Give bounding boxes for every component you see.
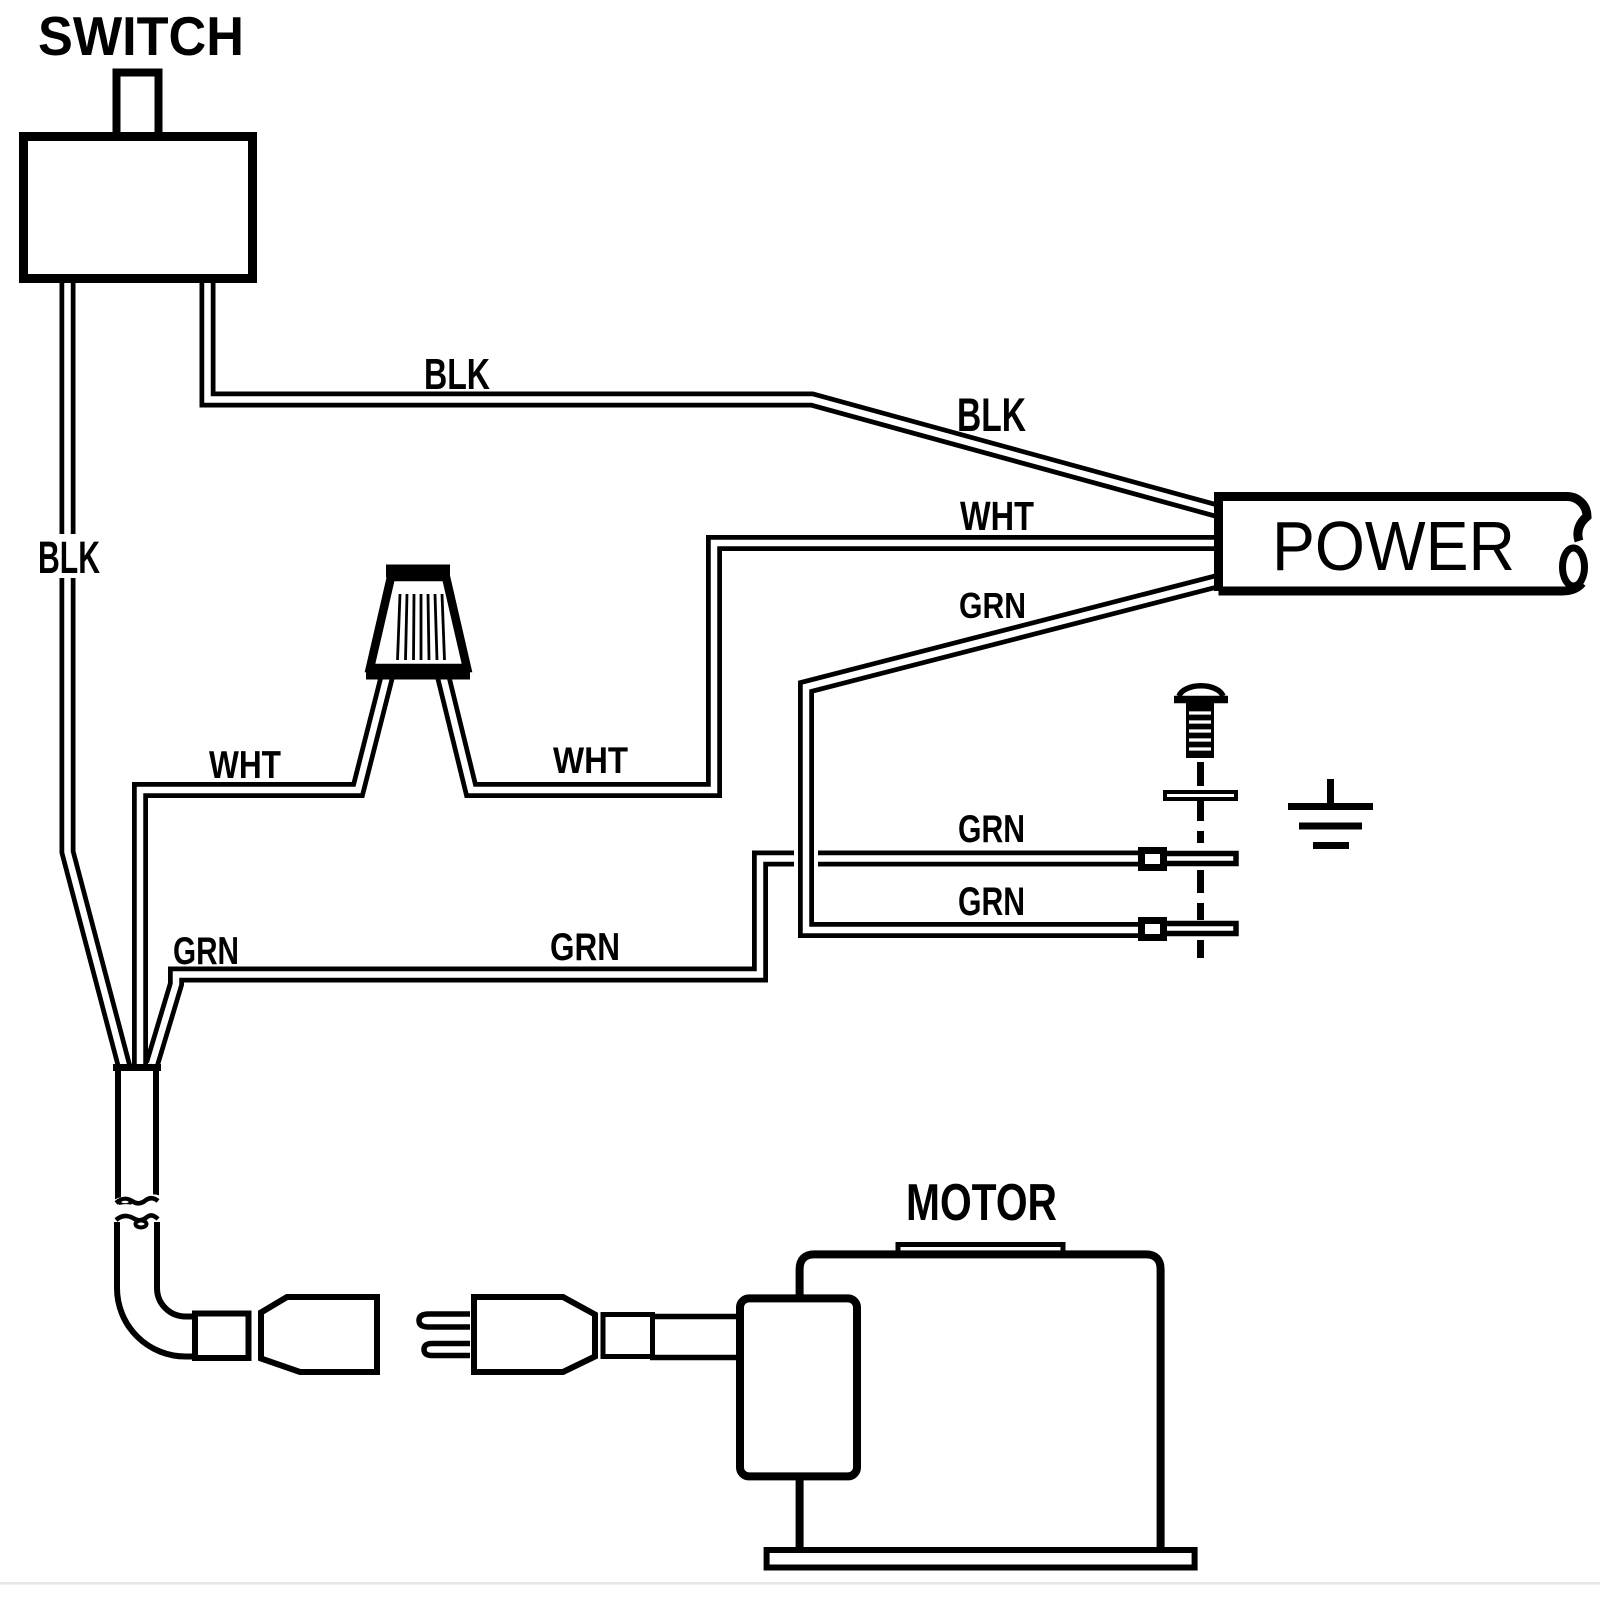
motor top tab: [898, 1245, 1063, 1256]
wire nut body: [366, 571, 470, 674]
female connector body: [261, 1297, 377, 1372]
svg-text:SWITCH: SWITCH: [38, 5, 244, 67]
wire WHT left: from bundle up to wire nut left leg: [140, 676, 387, 1066]
wire WHT right: from wire nut right leg to POWER: [443, 543, 1218, 790]
svg-text:MOTOR: MOTOR: [906, 1174, 1057, 1232]
switch body: [24, 137, 253, 279]
faint page edge line: [0, 1582, 1600, 1585]
plug prong lower: [424, 1344, 470, 1356]
motor junction box: [740, 1298, 857, 1476]
svg-text:WHT: WHT: [553, 740, 628, 781]
POWER cable: [1219, 497, 1588, 592]
cable sheath piece 1: [113, 1067, 161, 1209]
svg-text:POWER: POWER: [1272, 507, 1515, 585]
cable sheath piece 2 with elbow: [113, 1211, 194, 1336]
wire GRN long: from bundle to upper ground terminal: [152, 859, 1153, 1065]
wire BLK from switch right pin to POWER: [208, 283, 1219, 511]
star washer: [1165, 792, 1236, 799]
plug prong upper: [419, 1314, 470, 1327]
plug neck band: [603, 1315, 653, 1357]
screw: [1174, 686, 1228, 758]
svg-text:GRN: GRN: [958, 808, 1025, 851]
svg-text:GRN: GRN: [958, 880, 1025, 924]
wire BLK from switch left pin down to cable bundle: [68, 283, 125, 1066]
motor body: [800, 1254, 1161, 1553]
cable from plug to motor junction box: [650, 1314, 740, 1320]
motor base: [767, 1550, 1195, 1568]
svg-text:BLK: BLK: [424, 350, 490, 399]
terminal tongue lower: [1164, 924, 1236, 934]
screw center dashed line: [1197, 762, 1204, 958]
svg-text:GRN: GRN: [173, 930, 239, 973]
svg-text:GRN: GRN: [959, 585, 1026, 626]
svg-text:WHT: WHT: [209, 744, 281, 787]
svg-text:WHT: WHT: [960, 493, 1034, 539]
terminal tongue upper: [1164, 854, 1236, 864]
wire GRN from POWER down to lower ground terminal: [806, 581, 1218, 930]
terminal connector upper: [1142, 851, 1164, 868]
label BLK on left switch wire: [34, 534, 104, 578]
switch button: [117, 73, 159, 137]
terminal connector lower: [1142, 921, 1164, 938]
svg-text:GRN: GRN: [550, 926, 620, 969]
female connector ferrule: [195, 1314, 249, 1359]
svg-text:BLK: BLK: [38, 532, 100, 583]
ground symbol: [1288, 779, 1373, 846]
svg-text:BLK: BLK: [957, 388, 1026, 441]
plug body: [474, 1297, 595, 1372]
